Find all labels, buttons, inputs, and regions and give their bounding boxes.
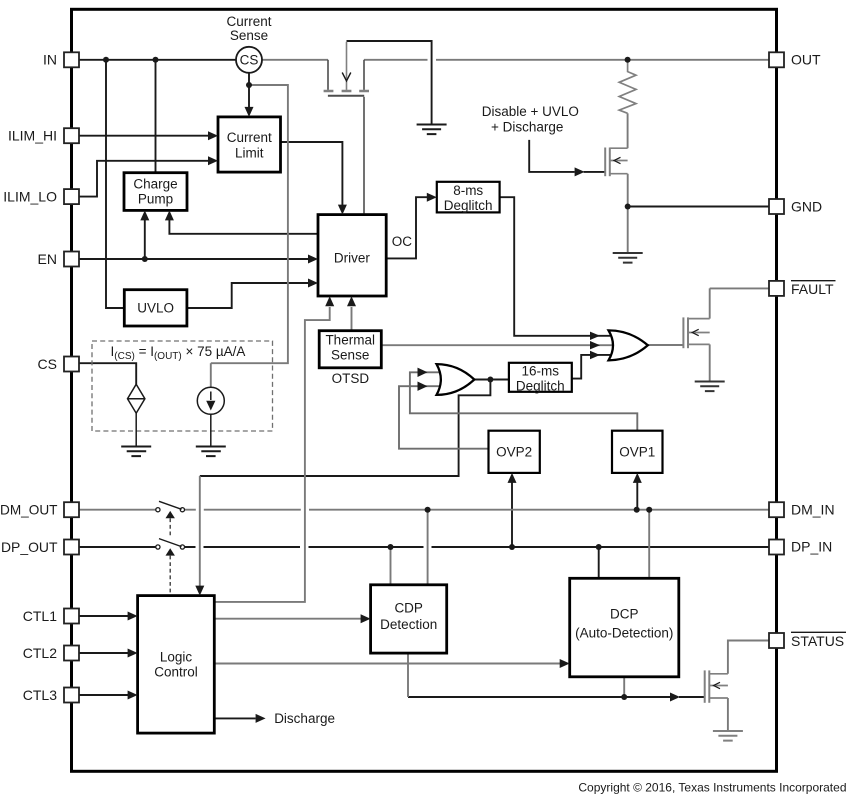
arrow into OR2 bottom: [418, 382, 428, 391]
svg-text:CS: CS: [240, 53, 259, 68]
wire CS pin to dependent source: [79, 363, 136, 384]
arrow into OVP2: [508, 473, 517, 483]
svg-text:CTL1: CTL1: [23, 608, 57, 624]
wire DP_IN to OVP2: [511, 482, 513, 547]
pin ILIM_HI: [8, 128, 79, 144]
svg-text:DP_OUT: DP_OUT: [1, 539, 58, 555]
discharge FET Q2: [605, 148, 627, 177]
svg-text:+ Discharge: + Discharge: [491, 119, 563, 134]
wire UVLO output to Driver: [187, 283, 309, 308]
node IN-UVLO: [103, 57, 109, 63]
svg-text:Copyright © 2016, Texas Instru: Copyright © 2016, Texas Instruments Inco…: [578, 781, 846, 795]
arrow into Driver (Thermal): [347, 296, 356, 306]
svg-text:Limit: Limit: [235, 145, 264, 160]
node DP-CDP: [388, 544, 394, 550]
arrow into DCP: [560, 659, 570, 668]
arrow into OVP1: [633, 473, 642, 483]
svg-text:OC: OC: [392, 234, 413, 249]
svg-text:Disable + UVLO: Disable + UVLO: [482, 104, 579, 119]
IC boundary box: [72, 9, 777, 771]
pin CS: [38, 356, 79, 372]
WIRES-BLACK: [79, 41, 769, 718]
svg-text:UVLO: UVLO: [137, 301, 174, 316]
arrow into 8-ms Deglitch: [427, 193, 437, 202]
wire current source to node: [210, 363, 212, 387]
svg-text:Control: Control: [154, 664, 198, 679]
wire disable to discharge FET gate: [529, 140, 604, 172]
wire DCP bottom output: [623, 677, 625, 697]
wire EN to Driver: [79, 258, 309, 260]
wire DP_IN to CDP: [390, 547, 392, 585]
wire CTL1 to Logic Control: [79, 615, 129, 617]
pin DM_IN: [769, 502, 835, 518]
switch DP: [156, 539, 185, 556]
wire DP_IN rail: [184, 546, 769, 548]
arrow into OR1 bottom: [590, 351, 600, 359]
svg-text:DP_IN: DP_IN: [791, 538, 832, 554]
wire DM_IN to CDP: [427, 510, 429, 585]
wire top rail to body ground: [347, 41, 432, 125]
wire discharge FET source to GND node: [627, 174, 629, 253]
svg-text:DM_IN: DM_IN: [791, 502, 835, 518]
node DP-DCP: [596, 544, 602, 550]
wire DM_OUT pin to switch: [79, 509, 156, 511]
arrow into Driver (EN): [308, 255, 318, 264]
wire DP_OUT pin to switch: [79, 546, 156, 548]
svg-text:ILIM_HI: ILIM_HI: [8, 128, 57, 144]
wire EN to Charge Pump: [144, 219, 146, 259]
wire CDP bottom output: [407, 653, 409, 697]
block Charge Pump: [124, 173, 187, 211]
wire Driver to Charge Pump: [169, 219, 318, 233]
wire GND rail: [628, 206, 769, 208]
wire CS current branch: [211, 85, 288, 363]
node status gate: [621, 694, 627, 700]
svg-text:Detection: Detection: [380, 617, 437, 632]
block UVLO: [124, 290, 187, 326]
node GND: [625, 204, 631, 210]
svg-text:DM_OUT: DM_OUT: [0, 502, 58, 518]
pin STATUS (active low): [769, 632, 846, 649]
arrow into Current Limit (ILIM_LO): [208, 156, 218, 165]
node OR2-16ms: [487, 377, 493, 383]
wire Thermal Sense to Driver: [351, 307, 353, 331]
svg-text:CDP: CDP: [394, 600, 423, 615]
svg-text:FAULT: FAULT: [791, 281, 834, 297]
wire CS circle to pass FET: [262, 59, 328, 61]
ground (discharge FET source): [613, 253, 643, 263]
svg-text:Deglitch: Deglitch: [444, 198, 493, 213]
node OUT-resistor: [625, 57, 631, 63]
svg-text:Current: Current: [226, 14, 271, 29]
wire ILIM_HI to Current Limit: [79, 135, 209, 137]
pass FET Q1: [324, 42, 369, 214]
arrowheads: [128, 107, 680, 723]
svg-text:IN: IN: [43, 52, 57, 68]
wire status FET drain to STATUS pin: [728, 641, 769, 674]
pin DP_IN: [769, 538, 832, 554]
block OVP1: [612, 431, 663, 473]
block OVP2: [489, 431, 540, 473]
svg-text:OUT: OUT: [791, 52, 821, 68]
or-gate OR2 (2-input): [437, 364, 475, 395]
wire CTL2 to Logic Control: [79, 652, 129, 654]
wire OR2 output to Logic Control: [200, 380, 491, 477]
svg-text:OVP1: OVP1: [619, 445, 655, 460]
ground (fault FET source): [695, 382, 725, 392]
arrow into OR2 top: [418, 368, 428, 377]
arrow into Logic Control (CTL3): [128, 691, 138, 700]
pin CTL3: [23, 687, 79, 703]
wire fault FET source to ground: [709, 344, 711, 381]
node DP-OVP2: [509, 544, 515, 550]
wire Logic Control discharge output: [214, 717, 255, 719]
arrow into Current Limit (ILIM_HI): [208, 131, 218, 140]
svg-text:EN: EN: [38, 251, 57, 267]
pin GND: [769, 198, 822, 214]
svg-text:Current: Current: [227, 130, 272, 145]
wire OUT rail: [364, 59, 769, 61]
block CDP Detection: [371, 585, 447, 653]
pin ILIM_LO: [3, 188, 79, 204]
block Driver: [318, 215, 386, 296]
wire CTL3 to Logic Control: [79, 694, 129, 696]
wire DM_IN rail: [184, 509, 769, 511]
ground (current source): [196, 447, 226, 457]
node DM-CDP: [425, 507, 431, 513]
current source (circle): [197, 387, 224, 446]
svg-text:8-ms: 8-ms: [453, 183, 483, 198]
ground (pass FET body): [417, 125, 447, 135]
svg-text:OVP2: OVP2: [496, 445, 532, 460]
svg-text:CTL2: CTL2: [23, 645, 57, 661]
wire Logic Control to CDP: [214, 618, 361, 620]
status FET Q4: [705, 670, 728, 702]
wire Driver OC to 8-ms deglitch: [386, 197, 428, 258]
dashed current-sense model box: [92, 341, 273, 431]
arrow into OR1 top: [590, 332, 600, 340]
wire 8-ms deglitch to OR1: [500, 197, 610, 336]
svg-text:Driver: Driver: [334, 251, 371, 266]
pin FAULT (active low): [769, 281, 836, 298]
block Logic Control: [138, 596, 215, 734]
pin EN: [38, 251, 79, 267]
svg-text:Discharge: Discharge: [274, 711, 335, 726]
pin CTL1: [23, 608, 79, 624]
wire Logic Control to Driver: [214, 307, 329, 602]
pin IN: [43, 52, 79, 68]
ground (dependent source): [121, 447, 151, 457]
arrow disable line: [575, 167, 585, 176]
arrow into Driver (Logic): [325, 296, 334, 306]
arrow into Logic Control (CTL1): [128, 612, 138, 621]
current sense CS circle: [236, 47, 262, 73]
block 16-ms Deglitch: [509, 363, 572, 394]
node EN-ChargePump: [142, 256, 148, 262]
block Thermal Sense: [319, 331, 381, 368]
wire OR2 output to 16-ms deglitch: [474, 379, 509, 381]
svg-text:STATUS: STATUS: [791, 633, 844, 649]
svg-text:Deglitch: Deglitch: [516, 378, 565, 393]
svg-text:Sense: Sense: [230, 28, 268, 43]
wire IN to Charge Pump: [155, 60, 157, 173]
svg-text:GND: GND: [791, 198, 822, 214]
arrow into Current Limit (CS): [245, 107, 254, 117]
node IN-ChargePump: [153, 57, 159, 63]
pin DM_OUT: [0, 502, 79, 518]
svg-text:(Auto-Detection): (Auto-Detection): [575, 626, 673, 641]
block DCP (Auto-Detection): [570, 578, 679, 677]
wire OR1 output to fault FET gate: [648, 344, 683, 346]
node DM-OVP1: [634, 507, 640, 513]
wire IN to UVLO: [106, 60, 124, 308]
block Current Limit: [218, 117, 281, 172]
arrow into CDP Detection: [361, 614, 371, 623]
wire DP_IN to DCP: [598, 547, 600, 578]
wire resistor to discharge FET drain: [627, 113, 629, 148]
arrow into Driver (Current Limit): [338, 205, 347, 215]
node DM-DCP: [646, 507, 652, 513]
svg-text:CTL3: CTL3: [23, 687, 57, 703]
block 8-ms Deglitch: [437, 182, 500, 213]
wire 16-ms deglitch to OR1: [572, 355, 610, 379]
svg-text:ILIM_LO: ILIM_LO: [3, 188, 57, 204]
wire status FET source to ground: [727, 698, 729, 731]
arrow status gate line: [670, 693, 680, 702]
wire DM_IN to DCP: [648, 510, 650, 579]
arrow into Charge Pump (EN): [140, 210, 149, 220]
svg-text:16-ms: 16-ms: [522, 363, 560, 378]
ground (status FET source): [713, 731, 743, 741]
wire OVP-OR node to Logic Control: [199, 476, 201, 587]
wire IN rail to CS circle: [79, 59, 236, 61]
arrow discharge output: [256, 714, 266, 723]
arrow into Charge Pump (Driver): [165, 210, 174, 220]
svg-text:Sense: Sense: [331, 348, 369, 363]
fault FET Q3: [683, 317, 709, 348]
wire status gate line: [408, 696, 704, 698]
resistor (output discharge): [619, 60, 636, 114]
WIRES-GRAY: [79, 60, 769, 731]
wire OVP2 output to OR2: [399, 386, 489, 449]
or-gate OR1 (3-input): [609, 330, 648, 360]
wire DM_IN to OVP1: [636, 482, 638, 510]
wire OVP1 output to OR2: [410, 372, 637, 430]
svg-text:Pump: Pump: [138, 191, 173, 206]
wire Logic Control to DCP: [214, 663, 560, 665]
svg-text:Thermal: Thermal: [325, 333, 375, 348]
svg-text:OTSD: OTSD: [332, 371, 370, 386]
wire ILIM_LO to Current Limit: [79, 161, 209, 197]
svg-text:Charge: Charge: [133, 176, 177, 191]
pin DP_OUT: [1, 539, 79, 555]
wire CS circle to Current Limit: [248, 73, 250, 108]
dependent current source (diamond): [128, 384, 145, 446]
wire Current Limit output to Driver: [281, 142, 343, 206]
switch DM: [156, 501, 185, 518]
pin OUT: [769, 52, 821, 68]
arrow into Logic Control (CTL2): [128, 649, 138, 658]
arrow into Logic Control (OVP): [195, 586, 204, 596]
svg-text:Logic: Logic: [160, 649, 193, 664]
arrow into OR1 middle: [590, 341, 600, 349]
wire switch control (dashed): [169, 518, 171, 538]
node CS branch: [246, 82, 252, 88]
arrow into Driver (UVLO): [308, 279, 318, 288]
svg-text:CS: CS: [38, 356, 57, 372]
wire FAULT pin to fault FET: [710, 288, 769, 318]
pin CTL2: [23, 645, 79, 661]
wire Thermal Sense OTSD to OR1: [381, 344, 613, 346]
svg-text:DCP: DCP: [610, 607, 639, 622]
